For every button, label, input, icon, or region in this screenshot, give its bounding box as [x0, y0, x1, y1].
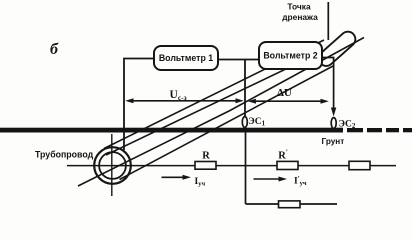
resistor (bottom, unlabeled): [279, 201, 301, 208]
svg-text:Iуч: Iуч: [195, 177, 206, 188]
wire drain point lead: [327, 2, 329, 40]
svg-text:ΔU: ΔU: [277, 87, 292, 99]
wire R to R': [216, 165, 277, 167]
dimension arrow Uc-z: [125, 98, 244, 103]
wire V1 to V2: [218, 59, 259, 61]
pipe top edge line: [104, 40, 324, 149]
svg-text:Uс-з: Uс-з: [170, 89, 187, 102]
current arrow I_uch: [162, 175, 192, 180]
svg-text:Вольтметр 2: Вольтметр 2: [263, 51, 317, 61]
svg-text:R: R: [202, 151, 210, 162]
resistor R': [277, 161, 298, 169]
svg-text:Вольтметр 1: Вольтметр 1: [159, 53, 213, 63]
svg-text:R′: R′: [278, 148, 288, 162]
svg-text:Трубопровод: Трубопровод: [35, 150, 94, 160]
voltmeter V2: [259, 42, 322, 69]
label Точка дренажа: [282, 2, 318, 22]
svg-text:ЭС2: ЭС2: [339, 120, 356, 131]
pipe bottom edge line: [120, 66, 335, 180]
svg-text:Точка: Точка: [287, 2, 311, 12]
wire R' to third resistor: [298, 165, 349, 167]
pipe cross-section: [94, 147, 131, 184]
pipe centerline vertical: [111, 134, 113, 196]
svg-text:ЭС1: ЭС1: [248, 117, 265, 128]
current arrow I'_uch: [254, 177, 288, 182]
ground surface (soil line): [0, 128, 412, 133]
wire V1 to pipe: [124, 59, 154, 151]
svg-text:б: б: [50, 41, 59, 58]
voltmeter V1: [154, 46, 218, 70]
resistor R: [195, 162, 216, 170]
pipe axis line: [78, 38, 364, 187]
wire bottom to resistor: [246, 203, 279, 205]
svg-text:I′уч: I′уч: [294, 175, 307, 187]
wire V2 to electrode ES2 with down arrow: [322, 58, 337, 117]
dimension arrow dU: [248, 99, 329, 104]
wire pipe centerline to resistor R: [67, 165, 195, 167]
electrode ES2: [331, 118, 336, 129]
electrode ES1: [242, 117, 247, 128]
wire right end: [370, 165, 396, 167]
pipe inner top line: [106, 51, 325, 156]
svg-text:дренажа: дренажа: [282, 12, 318, 22]
resistor (right, unlabeled): [349, 161, 370, 169]
pipe end cap: [316, 29, 359, 69]
svg-text:Грунт: Грунт: [322, 137, 345, 146]
wire ES1 down below ground: [245, 133, 247, 205]
wire junction to electrode ES1: [244, 60, 246, 118]
wire bottom right: [300, 203, 337, 205]
